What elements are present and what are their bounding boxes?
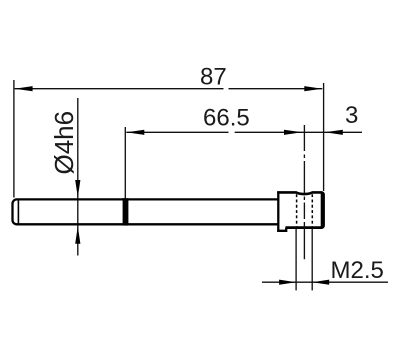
- shaft junction thick bar: [123, 198, 129, 225]
- hidden thread line right: [311, 194, 313, 226]
- dimension M2.5 extension line left: [295, 229, 297, 291]
- svg-text:Ø4h6: Ø4h6: [49, 111, 79, 175]
- dimension M2.5 arrow left: [279, 280, 296, 285]
- dimension M2.5 line: [262, 281, 388, 283]
- shaft rounded left tip: [13, 199, 19, 224]
- svg-text:66.5: 66.5: [203, 105, 250, 132]
- dimension M2.5 value label: [331, 257, 384, 284]
- dimension 66.5 value label: [203, 105, 250, 132]
- dimension 3 arrow right: [325, 130, 343, 135]
- dimension 87 value label: [200, 64, 227, 91]
- dimension 87 arrow right: [304, 86, 322, 91]
- dimension M2.5 arrow right: [312, 280, 329, 285]
- centerline: [303, 125, 305, 259]
- head left edge: [277, 191, 279, 231]
- dimension diameter 4h6 line: [77, 98, 79, 256]
- svg-text:87: 87: [200, 64, 227, 91]
- dimension 87 extension line right: [323, 83, 325, 191]
- dimension 87 extension line left: [13, 80, 15, 198]
- dimension M2.5 extension line right: [311, 229, 313, 291]
- dimension diameter 4h6 arrow top: [75, 180, 80, 198]
- dimension diameter 4h6 value label: [49, 111, 79, 175]
- head bottom left tab: [277, 228, 286, 231]
- shaft tip tangent line: [17, 199, 19, 224]
- dimension 87 line: [15, 88, 323, 90]
- dimension 3 value label: [345, 102, 358, 129]
- shaft outline bottom edge: [18, 223, 278, 225]
- dimension 66.5 arrow right: [284, 130, 302, 135]
- dimension 66.5 extension line left: [124, 127, 126, 199]
- shaft outline top edge: [18, 198, 278, 200]
- head bottom edge: [286, 226, 323, 229]
- head right edge thick bar: [321, 191, 325, 229]
- head top edge with dip: [277, 192, 321, 194]
- dimension 66.5 arrow left: [126, 130, 144, 135]
- svg-text:M2.5: M2.5: [331, 257, 384, 284]
- svg-text:3: 3: [345, 102, 358, 129]
- dimension diameter 4h6 arrow bottom: [75, 226, 80, 244]
- hidden thread line left: [296, 194, 298, 226]
- dimension 87 arrow left: [15, 86, 33, 91]
- dimension 66.5 and 3 shared line: [126, 131, 362, 133]
